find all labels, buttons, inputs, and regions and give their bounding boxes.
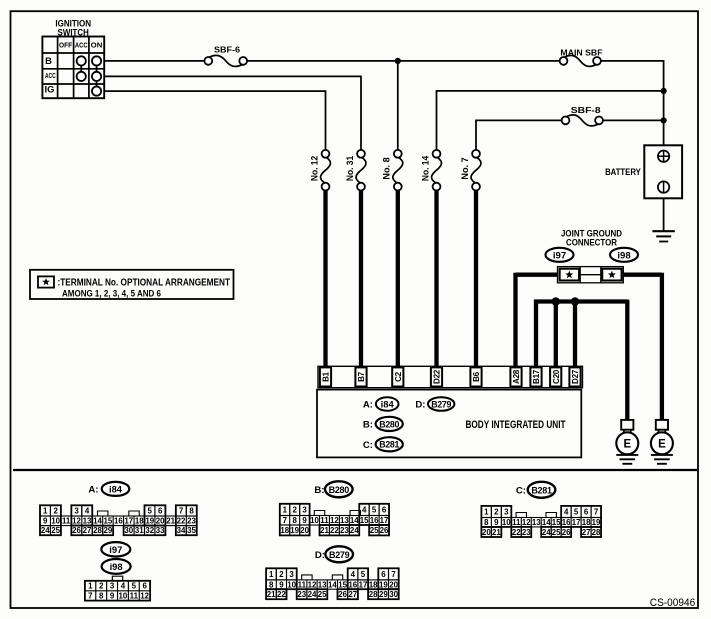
svg-text:15: 15	[104, 517, 113, 526]
svg-text:7: 7	[594, 508, 599, 517]
connector D B279 pin numbers row 3	[267, 590, 399, 599]
svg-text:12: 12	[308, 580, 317, 589]
joint ground connector terminal i97 (star)	[560, 269, 580, 281]
svg-text:32: 32	[145, 526, 154, 535]
connector A i84 pin grid outline	[40, 505, 197, 535]
svg-text:E: E	[623, 439, 631, 451]
ground E left chassis ground marks	[616, 454, 638, 456]
svg-text:12: 12	[522, 518, 531, 527]
connector B B280 pin numbers row 3	[280, 526, 389, 535]
wire ignition IG to fuse No. 12	[104, 90, 325, 92]
svg-text:10: 10	[502, 518, 511, 527]
wire fuse output to terminal C2 (thick)	[396, 190, 400, 368]
wire joint ground connector i98 to ground E right (thick)	[623, 273, 662, 277]
svg-text:B279: B279	[431, 399, 451, 409]
svg-text:22: 22	[330, 526, 339, 535]
svg-text:B7: B7	[357, 371, 366, 382]
svg-text:B280: B280	[379, 419, 399, 429]
svg-text:7: 7	[283, 516, 288, 525]
connector D B279 pin grid outline	[266, 568, 399, 599]
ground E right chassis ground marks	[651, 454, 673, 456]
svg-text:SBF-6: SBF-6	[214, 46, 240, 55]
svg-text:12: 12	[330, 516, 339, 525]
svg-text:26: 26	[338, 590, 347, 599]
wire terminal B17 ground bus (thick)	[534, 300, 538, 368]
terminal B7 pin box	[355, 367, 366, 386]
svg-text:25: 25	[318, 590, 327, 599]
svg-text:B281: B281	[531, 485, 552, 495]
svg-text:21: 21	[320, 526, 329, 535]
svg-text:16: 16	[562, 518, 571, 527]
ignition switch contact IG-ON	[92, 87, 101, 96]
svg-text:19: 19	[592, 518, 601, 527]
svg-text:8: 8	[292, 516, 297, 525]
svg-text:18: 18	[582, 518, 591, 527]
wire fuse No. 7 to SBF-8	[475, 120, 477, 150]
svg-text:7: 7	[391, 570, 396, 579]
svg-text:2: 2	[292, 505, 297, 514]
svg-text:9: 9	[110, 592, 115, 601]
connector i98 designator	[610, 248, 638, 262]
svg-text:BATTERY: BATTERY	[605, 167, 641, 177]
svg-text:CONNECTOR: CONNECTOR	[566, 238, 618, 248]
svg-text:24: 24	[542, 528, 551, 537]
svg-text:2: 2	[494, 508, 499, 517]
svg-text:AMONG 1, 2, 3, 4, 5 AND 6: AMONG 1, 2, 3, 4, 5 AND 6	[62, 287, 161, 298]
svg-text:14: 14	[93, 517, 102, 526]
svg-text:5: 5	[574, 508, 579, 517]
svg-text:9: 9	[43, 517, 48, 526]
connector A i84 pin numbers row 3	[41, 526, 197, 535]
svg-text:6: 6	[142, 582, 147, 591]
svg-text:35: 35	[187, 526, 196, 535]
svg-text:9: 9	[302, 516, 307, 525]
svg-text:30: 30	[389, 590, 398, 599]
svg-text:No. 31: No. 31	[345, 156, 355, 181]
terminal D27 pin box	[569, 367, 580, 386]
wire terminal C20 riser (thick)	[554, 302, 558, 369]
connector i97/i98 pin numbers row 2	[88, 592, 150, 601]
svg-text:C2: C2	[394, 371, 403, 382]
svg-text:1: 1	[43, 506, 48, 515]
connector B B280 pin numbers row 2	[283, 516, 389, 525]
svg-text:B6: B6	[472, 371, 481, 382]
ignition switch contact link ACC column	[80, 66, 82, 72]
svg-text:24: 24	[41, 526, 50, 535]
fuse No. 8	[393, 158, 403, 183]
svg-text:11: 11	[512, 518, 521, 527]
svg-text:14: 14	[350, 516, 359, 525]
svg-text:7: 7	[179, 506, 184, 515]
svg-text:3: 3	[504, 508, 509, 517]
svg-text:No. 8: No. 8	[382, 157, 392, 179]
chassis ground symbol below battery	[652, 230, 674, 232]
svg-text:4: 4	[121, 582, 126, 591]
svg-text:C:: C:	[516, 486, 526, 497]
svg-text:8: 8	[189, 506, 194, 515]
wire SBF-6 to MAIN SBF	[247, 60, 560, 62]
svg-text:21: 21	[166, 517, 175, 526]
svg-text:27: 27	[348, 590, 357, 599]
svg-text:1: 1	[484, 508, 489, 517]
connector i97/i98 pin numbers row 1	[88, 582, 147, 591]
fuse SBF-6	[210, 55, 243, 66]
svg-text:C20: C20	[552, 369, 561, 384]
svg-text:20: 20	[156, 517, 165, 526]
svg-text:15: 15	[360, 516, 369, 525]
svg-text:27: 27	[582, 528, 591, 537]
svg-text:26: 26	[72, 526, 81, 535]
svg-text:10: 10	[51, 517, 60, 526]
svg-text:29: 29	[379, 590, 388, 599]
ignition switch contact link ON column ACC-IG	[96, 81, 98, 87]
svg-text:19: 19	[145, 517, 154, 526]
svg-text:9: 9	[279, 580, 284, 589]
svg-text:2: 2	[279, 570, 284, 579]
svg-text:21: 21	[492, 528, 501, 537]
fuse No. 7	[471, 158, 481, 183]
wire junction to fuse No. 8	[397, 61, 399, 151]
svg-text:6: 6	[584, 508, 589, 517]
svg-text:3: 3	[110, 582, 115, 591]
svg-text:23: 23	[297, 590, 306, 599]
svg-text:24: 24	[350, 526, 359, 535]
svg-text:D:: D:	[315, 550, 325, 561]
ignition switch contact B-ACC	[77, 56, 86, 65]
svg-text:4: 4	[351, 570, 356, 579]
svg-text:30: 30	[124, 526, 133, 535]
svg-text:22: 22	[277, 590, 286, 599]
svg-text:i84: i84	[109, 483, 123, 494]
svg-text:ACC: ACC	[45, 71, 56, 80]
svg-text:31: 31	[135, 526, 144, 535]
fuse No. 31	[356, 158, 366, 183]
svg-text:3: 3	[289, 570, 294, 579]
svg-text:E: E	[658, 439, 666, 451]
connector A i84 pin numbers row 1	[43, 506, 194, 515]
svg-text:28: 28	[369, 590, 378, 599]
connector A i84 housing sections (bold)	[40, 505, 197, 535]
svg-text:D:: D:	[415, 400, 425, 411]
svg-text:11: 11	[130, 592, 139, 601]
svg-text:13: 13	[83, 517, 92, 526]
svg-text:18: 18	[369, 580, 378, 589]
wire battery trunk vertical	[663, 60, 665, 145]
svg-text:SBF-8: SBF-8	[571, 105, 601, 115]
svg-text:1: 1	[88, 582, 93, 591]
svg-text:18: 18	[135, 517, 144, 526]
svg-text:B:: B:	[363, 419, 373, 430]
ignition switch contact B-ON	[92, 56, 101, 65]
svg-text:11: 11	[62, 517, 71, 526]
svg-text:8: 8	[269, 580, 274, 589]
svg-text:26: 26	[380, 526, 389, 535]
battery box	[644, 145, 682, 198]
svg-text:16: 16	[114, 517, 123, 526]
svg-text:CS-00946: CS-00946	[650, 597, 695, 609]
connector A i84 pin numbers row 2	[43, 517, 196, 526]
terminal B1 pin box	[320, 367, 331, 386]
body integrated unit box	[317, 390, 581, 458]
wire fuse output to terminal B6 (thick)	[474, 190, 478, 368]
svg-text:6: 6	[382, 505, 387, 514]
svg-text:17: 17	[359, 580, 368, 589]
svg-text:No. 14: No. 14	[420, 155, 430, 181]
svg-text:2: 2	[53, 506, 58, 515]
wire terminal A28 to joint ground connector i97 (thick)	[516, 273, 558, 277]
svg-text:B280: B280	[329, 485, 350, 495]
svg-text:17: 17	[124, 517, 133, 526]
svg-text:13: 13	[340, 516, 349, 525]
svg-text:22: 22	[512, 528, 521, 537]
svg-text:i98: i98	[617, 250, 631, 261]
svg-text:23: 23	[340, 526, 349, 535]
wire fuse No. 14 feed	[436, 91, 438, 151]
svg-text:26: 26	[562, 528, 571, 537]
wire MAIN SBF to battery trunk	[600, 60, 663, 62]
svg-text:B281: B281	[379, 440, 399, 450]
connector D B279 pin numbers row 2	[269, 580, 399, 589]
svg-text:18: 18	[280, 526, 289, 535]
svg-text:22: 22	[177, 517, 186, 526]
fuse SBF-8	[567, 115, 598, 126]
svg-text:10: 10	[119, 592, 128, 601]
connector C B281 pin numbers row 2	[484, 518, 601, 527]
svg-text:15: 15	[338, 580, 347, 589]
battery positive terminal symbol	[658, 151, 669, 162]
svg-text:5: 5	[148, 506, 153, 515]
ignition switch contact ACC-ACC	[77, 72, 86, 81]
svg-text:10: 10	[310, 516, 319, 525]
svg-text:4: 4	[85, 506, 90, 515]
wire ignition ACC to fuse No. 31	[104, 75, 361, 77]
wire ignition B to fuse SBF-6	[104, 60, 205, 62]
svg-text:14: 14	[328, 580, 337, 589]
svg-text:15: 15	[552, 518, 561, 527]
ground E right connector body	[656, 420, 668, 430]
svg-text:12: 12	[72, 517, 81, 526]
svg-text:24: 24	[308, 590, 317, 599]
battery ground wire	[663, 198, 665, 231]
wire fuse output to terminal B1 (thick)	[323, 190, 327, 368]
svg-text:B279: B279	[329, 550, 350, 560]
svg-text:MAIN SBF: MAIN SBF	[560, 47, 602, 57]
connector i97/i98 pin grid	[85, 576, 150, 600]
svg-text:10: 10	[287, 580, 296, 589]
connector i97 designator	[546, 248, 574, 262]
svg-text:i97: i97	[553, 250, 566, 261]
svg-text:7: 7	[88, 592, 93, 601]
connector C B281 pin numbers row 3	[482, 528, 601, 537]
connector B B280 housing sections (bold)	[280, 504, 389, 536]
svg-text:19: 19	[379, 580, 388, 589]
svg-text:1: 1	[269, 570, 274, 579]
section separator line	[13, 469, 697, 471]
connector D B279 housing sections (bold)	[266, 568, 399, 599]
ground E left terminal circle	[616, 432, 638, 454]
connector B B280 pin grid outline	[280, 504, 389, 536]
svg-text:5: 5	[372, 505, 377, 514]
ground E right terminal circle	[651, 432, 673, 454]
svg-text:A:: A:	[363, 400, 373, 411]
svg-text:BODY INTEGRATED UNIT: BODY INTEGRATED UNIT	[466, 419, 566, 431]
joint ground connector terminal i98 (star)	[602, 269, 621, 281]
svg-text:16: 16	[370, 516, 379, 525]
svg-text:23: 23	[187, 517, 196, 526]
svg-text:B1: B1	[322, 371, 331, 382]
svg-text:ON: ON	[91, 41, 103, 50]
junction node ground bus / D27	[571, 297, 580, 306]
svg-text:9: 9	[494, 518, 499, 527]
svg-text:i97: i97	[109, 544, 122, 555]
svg-text:3: 3	[74, 506, 79, 515]
svg-text:20: 20	[482, 528, 491, 537]
battery negative terminal symbol	[658, 181, 669, 192]
terminal C20 pin box	[550, 367, 561, 386]
ignition switch contact ACC-ON	[92, 72, 101, 81]
joint ground connector body	[558, 267, 624, 283]
svg-text:14: 14	[542, 518, 551, 527]
ground E left connector body	[621, 420, 633, 430]
connector i97 designator (legend)	[101, 542, 130, 556]
svg-text:IG: IG	[45, 84, 55, 95]
fuse MAIN SBF	[565, 55, 596, 66]
svg-text:A:: A:	[88, 484, 98, 495]
svg-text:28: 28	[592, 528, 601, 537]
svg-text:25: 25	[370, 526, 379, 535]
fuse No. 12	[321, 158, 331, 183]
svg-text:25: 25	[552, 528, 561, 537]
svg-text:D22: D22	[433, 369, 442, 384]
connector D B279 pin numbers row 1	[269, 570, 396, 579]
svg-text:33: 33	[156, 526, 165, 535]
svg-text:i84: i84	[381, 399, 395, 410]
svg-text:ACC: ACC	[75, 41, 88, 50]
svg-text:17: 17	[380, 516, 389, 525]
svg-text:5: 5	[132, 582, 137, 591]
svg-text:i98: i98	[110, 561, 123, 572]
svg-text:19: 19	[290, 526, 299, 535]
terminal A28 pin box	[510, 367, 521, 386]
svg-text:6: 6	[158, 506, 163, 515]
svg-text:12: 12	[140, 592, 149, 601]
svg-text:20: 20	[389, 580, 398, 589]
wire fuse output to terminal B7 (thick)	[359, 190, 363, 368]
svg-text:17: 17	[572, 518, 581, 527]
svg-text:13: 13	[318, 580, 327, 589]
svg-text:8: 8	[484, 518, 489, 527]
wire terminal D27 riser (thick)	[573, 302, 577, 369]
svg-text:21: 21	[267, 590, 276, 599]
wire fuse output to terminal D22 (thick)	[434, 190, 438, 368]
svg-text:4: 4	[362, 505, 367, 514]
svg-text:6: 6	[381, 570, 386, 579]
ignition switch contact table	[42, 37, 104, 99]
svg-text:20: 20	[300, 526, 309, 535]
junction node ground bus / C20	[552, 297, 561, 306]
svg-text:28: 28	[93, 526, 102, 535]
connector C B281 pin numbers row 1	[484, 508, 599, 517]
svg-text:8: 8	[99, 592, 104, 601]
svg-text:A28: A28	[512, 369, 521, 384]
svg-text:1: 1	[283, 505, 288, 514]
svg-text:23: 23	[522, 528, 531, 537]
terminal C2 pin box	[392, 367, 403, 386]
svg-text:C:: C:	[363, 440, 373, 451]
svg-text:3: 3	[302, 505, 307, 514]
junction node trunk / No. 14 feed	[661, 88, 667, 94]
svg-text:25: 25	[51, 526, 60, 535]
body integrated unit terminal strip	[318, 366, 583, 387]
fuse No. 14	[432, 158, 442, 183]
svg-text:No. 7: No. 7	[460, 157, 470, 179]
terminal D22 pin box	[431, 367, 442, 386]
svg-text:11: 11	[320, 516, 329, 525]
svg-text:OFF: OFF	[59, 41, 72, 50]
svg-text:5: 5	[361, 570, 366, 579]
svg-text:27: 27	[83, 526, 92, 535]
ignition switch contact link ON column B-ACC	[96, 66, 98, 72]
svg-text:B17: B17	[532, 369, 541, 384]
svg-text:2: 2	[99, 582, 104, 591]
note box: terminal optional arrangement	[30, 270, 234, 299]
svg-text:D27: D27	[571, 369, 580, 384]
wire SBF-8 to battery trunk	[602, 119, 663, 121]
terminal B6 pin box	[470, 367, 481, 386]
svg-text:B: B	[45, 55, 52, 66]
svg-text:B:: B:	[314, 485, 324, 496]
svg-text:No. 12: No. 12	[309, 156, 319, 181]
connector C B281 pin grid outline	[481, 506, 601, 537]
svg-text:29: 29	[104, 526, 113, 535]
junction node trunk / SBF-8 feed	[661, 117, 667, 123]
svg-text:4: 4	[564, 508, 569, 517]
svg-text:13: 13	[532, 518, 541, 527]
connector i98 designator (legend)	[102, 559, 131, 574]
connector C B281 housing sections (bold)	[481, 506, 601, 537]
svg-text:34: 34	[177, 526, 186, 535]
connector B B280 pin numbers row 1	[283, 505, 387, 514]
svg-text:11: 11	[298, 580, 307, 589]
svg-text:16: 16	[348, 580, 357, 589]
junction node battery feed / fuse No. 8	[395, 58, 401, 64]
terminal B17 pin box	[530, 367, 541, 386]
